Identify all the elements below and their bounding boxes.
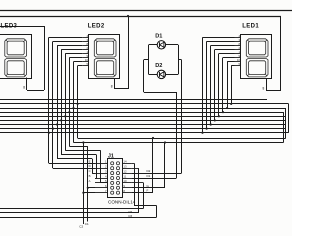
svg-text:C2: C2: [79, 225, 83, 229]
svg-text:C6: C6: [128, 214, 132, 218]
svg-text:D2: D2: [155, 63, 162, 69]
svg-text:B: B: [89, 174, 91, 178]
svg-text:11: 11: [123, 174, 126, 178]
svg-text:8: 8: [263, 87, 265, 91]
svg-text:CONN-DIL14: CONN-DIL14: [108, 199, 136, 204]
svg-text:D1: D1: [155, 33, 162, 39]
svg-text:D: D: [89, 164, 91, 168]
svg-text:E: E: [89, 159, 91, 163]
svg-text:C1: C1: [85, 222, 89, 226]
svg-text:12: 12: [123, 169, 127, 173]
svg-text:8: 8: [23, 86, 25, 90]
svg-text:A: A: [89, 179, 91, 183]
svg-text:14: 14: [123, 160, 127, 164]
svg-text:J1: J1: [108, 153, 114, 159]
svg-text:F: F: [147, 189, 149, 193]
svg-text:LED3: LED3: [1, 24, 18, 30]
svg-text:D1: D1: [147, 174, 151, 178]
svg-text:LED1: LED1: [242, 24, 259, 30]
svg-text:D2: D2: [147, 169, 151, 173]
svg-text:LED2: LED2: [88, 24, 105, 30]
svg-text:10: 10: [123, 179, 127, 183]
svg-text:C: C: [89, 169, 91, 173]
svg-text:8: 8: [111, 85, 113, 89]
svg-text:13: 13: [123, 165, 127, 169]
